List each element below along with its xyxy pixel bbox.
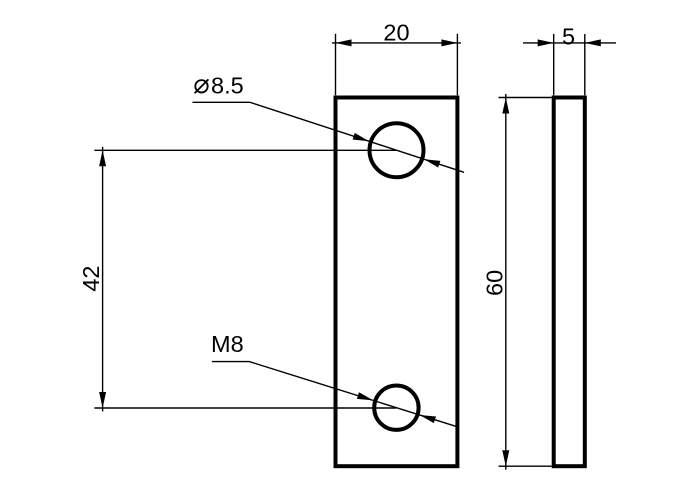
dim 5: dimension line between <box>554 42 585 44</box>
leader M8: underline and diagonal <box>212 362 457 427</box>
dim 60: dimension line with overshoot <box>505 94 507 470</box>
dim 42: arrow down <box>99 392 106 408</box>
dim 20: arrow left <box>336 39 352 46</box>
leader diam 8.5: underline and diagonal <box>193 102 465 172</box>
dim 42: arrow up <box>99 150 106 166</box>
side view plate outline <box>554 98 585 467</box>
leader M8: arrow at right of circle <box>420 415 436 423</box>
dim 20: dimension line with overshoot <box>332 42 461 44</box>
leader diam 8.5: arrow at left of circle <box>353 133 369 141</box>
leader M8: arrow at left of circle <box>357 392 373 400</box>
dim 60: arrow down <box>502 450 509 466</box>
dim 60: arrow up <box>502 98 509 114</box>
svg-text:5: 5 <box>562 24 575 50</box>
dim 5: extension lines <box>554 34 585 95</box>
dim 20: arrow right <box>441 39 457 46</box>
dim 5: left outside arrow <box>523 42 554 44</box>
dim 60: extension lines <box>499 98 552 467</box>
hole bottom (M8) <box>374 386 418 430</box>
dim 42: extension line bottom to hole center <box>94 407 396 409</box>
dim 20: extension lines <box>336 34 458 96</box>
hole top (diam 8.5) <box>370 123 424 177</box>
front view plate outline <box>336 98 458 467</box>
svg-text:M8: M8 <box>211 331 244 357</box>
leader diam 8.5: symbol <box>195 79 209 93</box>
svg-text:42: 42 <box>78 266 104 292</box>
leader diam 8.5: arrow at right of circle <box>424 159 440 167</box>
dim 42: dimension line with overshoot <box>102 147 104 412</box>
svg-text:20: 20 <box>383 20 409 46</box>
dim 42: extension line top to hole center <box>94 149 396 151</box>
dim 5: right outside arrow <box>585 42 616 44</box>
svg-text:60: 60 <box>482 270 508 296</box>
svg-text:8.5: 8.5 <box>211 73 244 99</box>
